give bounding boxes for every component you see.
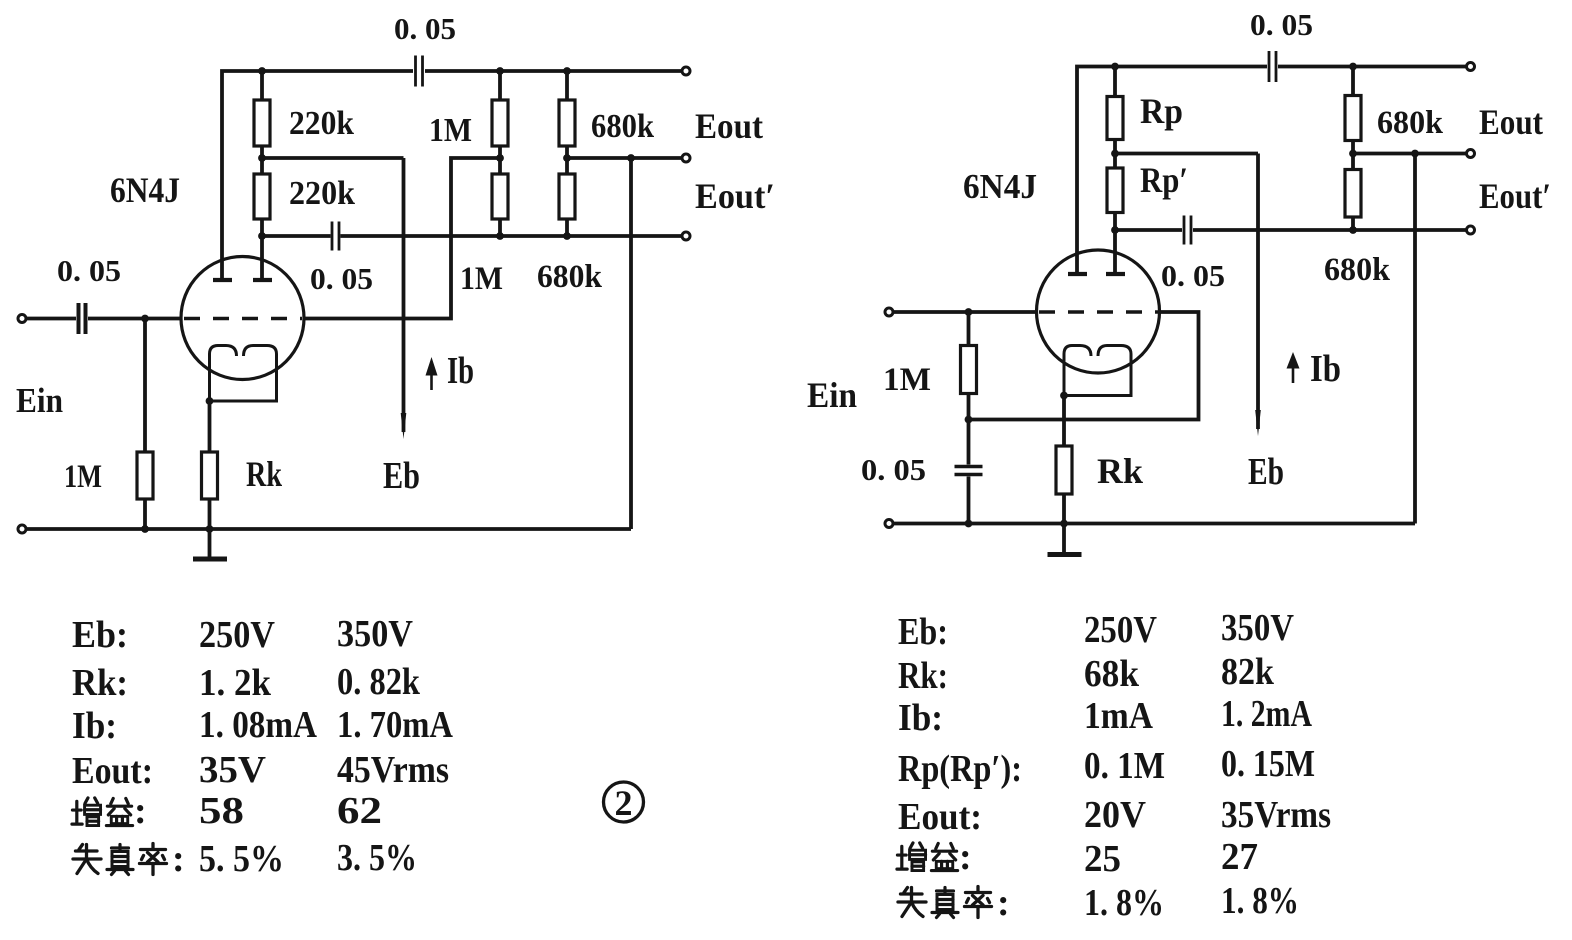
label table-left Eb row xyxy=(72,613,413,656)
svg-text:62: 62 xyxy=(337,790,382,832)
node: R4 bottom junction xyxy=(496,232,504,240)
capacitor C2 0.05 (Eout&#39; coupling) xyxy=(332,222,339,251)
label table-right Rk row xyxy=(898,651,1275,697)
svg-text:680k: 680k xyxy=(1377,105,1444,141)
node: Rp&#39; bottom junction xyxy=(1111,226,1119,234)
svg-text:250V: 250V xyxy=(199,614,275,656)
label tube V1 6N4J xyxy=(110,170,180,210)
node: left top rail junction at 220k xyxy=(258,67,266,75)
label table-left Rk row xyxy=(72,661,421,704)
wire: feedback loop second grid xyxy=(969,312,1199,420)
svg-text:45Vrms: 45Vrms xyxy=(337,749,449,791)
wire: Eout output wire (left) xyxy=(567,156,682,160)
svg-text:0. 1M: 0. 1M xyxy=(1084,745,1165,787)
svg-text:Ein: Ein xyxy=(807,375,857,415)
label R4 value 1M xyxy=(460,261,503,297)
wire: Eout&#39; wire right of C2 xyxy=(341,234,682,238)
label table-right Rp row xyxy=(898,743,1315,790)
node: grid leak bottom junction xyxy=(141,525,149,533)
wire: Eout&#39; wire left of C5 xyxy=(1115,228,1182,232)
label Ein (left) xyxy=(16,381,63,420)
label tube V2 6N4J xyxy=(963,167,1037,206)
svg-text:0. 05: 0. 05 xyxy=(394,11,456,46)
resistor R14 Rk (right cathode) xyxy=(1056,446,1072,494)
svg-text:Eout′: Eout′ xyxy=(695,176,775,216)
wire: Eb supply line (right) xyxy=(1256,154,1260,430)
svg-text:Eout: Eout xyxy=(695,106,763,146)
label R3 value 1M xyxy=(429,112,472,149)
label table-left distortion row (失真率) xyxy=(73,837,417,880)
node: right Eout wire junction to return drop xyxy=(1411,150,1419,158)
label Eout (left) xyxy=(695,106,763,146)
svg-text:1M: 1M xyxy=(429,112,472,149)
label Eout&#39; (left) xyxy=(695,176,775,216)
svg-text:250V: 250V xyxy=(1084,609,1157,651)
capacitor C1 0.05 (left top coupling) xyxy=(416,56,423,87)
svg-text:0. 15M: 0. 15M xyxy=(1221,743,1315,785)
label table-right distortion row (失真率) xyxy=(898,880,1299,924)
svg-text:1. 08mA: 1. 08mA xyxy=(199,704,317,746)
svg-text:2: 2 xyxy=(615,783,633,823)
cathode of V1 (heater cup) xyxy=(210,346,277,402)
terminal Eout (left) xyxy=(682,154,690,162)
svg-text:Rk: Rk xyxy=(1097,451,1143,491)
svg-text:Eout: Eout xyxy=(1479,102,1543,142)
label C1 value 0. 05 xyxy=(394,11,456,46)
wire: Eout&#39; wire left of C2 xyxy=(262,234,331,238)
svg-text:20V: 20V xyxy=(1084,794,1147,836)
label R8 Rk xyxy=(246,454,282,494)
svg-text:Ib: Ib xyxy=(1310,348,1341,390)
label R1 value 220k xyxy=(289,105,354,142)
svg-text:0. 05: 0. 05 xyxy=(57,253,121,288)
terminal: input Ein (right) xyxy=(885,308,893,316)
wire: 220k chain leads xyxy=(260,71,264,236)
label table-right Eout row xyxy=(898,794,1331,838)
wire: bottom return rail (left) xyxy=(27,527,632,531)
wire: right 1M leads xyxy=(967,312,971,420)
node: cathode junction (right) xyxy=(1060,392,1068,400)
svg-text:1. 2k: 1. 2k xyxy=(199,662,272,704)
svg-text:68k: 68k xyxy=(1084,653,1140,695)
wire: right input to grid xyxy=(894,310,1037,314)
svg-text:220k: 220k xyxy=(289,105,354,142)
svg-text:1. 70mA: 1. 70mA xyxy=(337,704,453,746)
resistor R10 Rp&#39; xyxy=(1107,168,1123,213)
svg-text:5. 5%: 5. 5% xyxy=(199,838,284,880)
figure number circled 2 xyxy=(604,782,644,823)
resistor R6 680k (lower) xyxy=(559,174,575,219)
node: left top rail junction at 680k xyxy=(563,67,571,75)
label R12 value 680k xyxy=(1324,252,1391,288)
arrowhead: Eb line right (down) xyxy=(1255,410,1261,436)
svg-text:Eb: Eb xyxy=(383,455,420,497)
svg-text:Rp: Rp xyxy=(1140,91,1183,131)
svg-text:0. 05: 0. 05 xyxy=(1161,258,1225,293)
node: R11-R12 junction xyxy=(1349,150,1357,158)
wire: right circuit B+ top rail with anode riser xyxy=(1077,67,1466,273)
wire: bottom return rail (right) xyxy=(894,522,1416,526)
label R7 value 1M xyxy=(64,459,102,495)
wire: Rp chain leads xyxy=(1113,67,1117,231)
label Eb (left) xyxy=(383,455,420,497)
ground (right) xyxy=(1048,524,1082,555)
terminal Eout&#39; (right) xyxy=(1467,226,1475,234)
resistor R11 680k (upper right) xyxy=(1345,96,1361,141)
capacitor C5 0.05 (right Eout&#39; coupling) xyxy=(1184,216,1191,245)
anode 2 lead and plate of V1 xyxy=(253,236,272,280)
label Ein (right) xyxy=(807,375,857,415)
svg-text:1. 2mA: 1. 2mA xyxy=(1221,693,1312,735)
wire: Rp-Rp&#39; junction to Eb line (right) xyxy=(1115,152,1258,156)
label R5 value 680k xyxy=(591,108,654,145)
label table-right Eb row xyxy=(898,607,1294,653)
label table-left Ib row xyxy=(72,704,453,747)
tube V2 6N4J envelope (right) xyxy=(1037,250,1160,373)
resistor R1 220k (upper) xyxy=(254,100,270,146)
arrow: Ib current (left, up) xyxy=(426,357,438,390)
svg-text:680k: 680k xyxy=(1324,252,1391,288)
svg-text:Rp(Rp′):: Rp(Rp′): xyxy=(898,748,1022,790)
tube V1 6N4J envelope (left) xyxy=(181,257,304,380)
svg-text:1M: 1M xyxy=(460,261,503,297)
node: 1M bottom junction (right) xyxy=(965,416,973,424)
svg-text:Rk:: Rk: xyxy=(898,655,948,697)
terminal: bottom rail (right) xyxy=(885,520,893,528)
svg-text:0. 05: 0. 05 xyxy=(310,261,373,296)
wire: R1-R2 junction to Eb supply line xyxy=(262,156,404,160)
wire: right 680k chain leads xyxy=(1351,67,1355,231)
svg-text:25: 25 xyxy=(1084,838,1121,880)
svg-text:58: 58 xyxy=(199,790,244,832)
node: right Rk bottom junction xyxy=(1060,520,1068,528)
label C6 value 0. 05 xyxy=(861,452,926,487)
svg-text:Eout:: Eout: xyxy=(898,796,982,838)
svg-text:1M: 1M xyxy=(64,459,102,495)
label Ib (left) xyxy=(447,350,474,392)
wire: C6 to bottom rail xyxy=(967,477,971,524)
svg-text:35V: 35V xyxy=(199,749,267,791)
svg-text:Rk: Rk xyxy=(246,454,282,494)
terminal: right B+ rail output xyxy=(1467,63,1475,71)
svg-text::: : xyxy=(959,836,972,878)
svg-text:27: 27 xyxy=(1221,836,1258,878)
wire: right cathode to Rk to bottom rail xyxy=(1062,396,1066,524)
label Eout (right) xyxy=(1479,102,1543,142)
ground (left) xyxy=(193,529,227,559)
svg-text:Ein: Ein xyxy=(16,381,63,420)
node: Rp-Rp&#39; junction xyxy=(1111,150,1119,158)
label table-left Eout row xyxy=(72,749,449,792)
svg-text:6N4J: 6N4J xyxy=(110,170,180,210)
svg-text::: : xyxy=(172,838,185,880)
wire: 680k chain leads xyxy=(565,71,569,236)
terminal: bottom rail (left) xyxy=(18,525,26,533)
label C3 value 0. 05 xyxy=(57,253,121,288)
svg-text:1. 8%: 1. 8% xyxy=(1221,880,1299,922)
wire: cathode to Rk to ground xyxy=(208,401,212,529)
label R14 Rk xyxy=(1097,451,1143,491)
svg-text:Ib: Ib xyxy=(447,350,474,392)
label C5 value 0. 05 xyxy=(1161,258,1225,293)
node: right input junction xyxy=(965,308,973,316)
resistor R5 680k (upper) xyxy=(559,100,575,146)
capacitor C4 0.05 (right top coupling) xyxy=(1269,51,1276,82)
node: Rk bottom junction xyxy=(206,525,214,533)
node: R3-R4 junction xyxy=(496,154,504,162)
node: R5-R6 junction xyxy=(563,154,571,162)
svg-text::: : xyxy=(134,790,147,832)
resistor R3 1M (upper) xyxy=(492,100,508,146)
wire: grid leak leads xyxy=(143,319,147,530)
node: left top rail junction at 1M xyxy=(496,67,504,75)
grid (dashed) of V2 xyxy=(1039,310,1158,313)
svg-text:680k: 680k xyxy=(537,259,603,295)
svg-text:350V: 350V xyxy=(1221,607,1294,649)
svg-text:1. 8%: 1. 8% xyxy=(1084,882,1164,924)
label R13 value 1M xyxy=(883,362,931,398)
svg-text:680k: 680k xyxy=(591,108,654,145)
svg-text:Eout′: Eout′ xyxy=(1479,176,1551,216)
svg-text:Eb:: Eb: xyxy=(898,611,948,653)
capacitor C3 0.05 (input coupling) xyxy=(79,303,86,334)
resistor R7 1M (grid leak) xyxy=(137,452,153,499)
label table-right Ib row xyxy=(898,693,1312,739)
svg-text:1mA: 1mA xyxy=(1084,695,1153,737)
resistor R13 1M (right grid) xyxy=(961,346,977,394)
wire: Eout&#39; wire right of C5 xyxy=(1193,228,1466,232)
svg-text:Eout:: Eout: xyxy=(72,750,153,792)
label table-left gain row (增益) xyxy=(72,790,382,832)
svg-text:Eb: Eb xyxy=(1248,451,1284,493)
label Eb (right) xyxy=(1248,451,1284,493)
label Eout&#39; (right) xyxy=(1479,176,1551,216)
svg-text:0. 05: 0. 05 xyxy=(861,452,926,487)
wire: 1M junction to C6 xyxy=(967,420,971,465)
svg-text:6N4J: 6N4J xyxy=(963,167,1037,206)
svg-text:Ib:: Ib: xyxy=(898,697,943,739)
svg-text:Rk:: Rk: xyxy=(72,662,128,704)
wire: C3 to grid xyxy=(88,317,181,321)
label C2 value 0. 05 xyxy=(310,261,373,296)
node: right top rail junction at 680k xyxy=(1349,63,1357,71)
resistor R9 Rp xyxy=(1107,97,1123,140)
anode 2 lead and plate of V2 xyxy=(1106,230,1125,274)
label Ib (right) xyxy=(1310,348,1341,390)
svg-text:0. 05: 0. 05 xyxy=(1250,7,1313,42)
svg-text::: : xyxy=(997,882,1010,924)
svg-text:1M: 1M xyxy=(883,362,931,398)
node: C6 bottom junction xyxy=(965,520,973,528)
node: R6 bottom junction xyxy=(563,232,571,240)
arrow: Ib current (right, up) xyxy=(1287,352,1300,383)
arrowhead: Eb line (down) xyxy=(401,413,407,439)
terminal Eout (right) xyxy=(1467,150,1475,158)
capacitor C6 0.05 (cathode bypass, vertical) xyxy=(955,467,983,475)
node: right top rail junction at Rp xyxy=(1111,63,1119,71)
wire: left circuit B+ top rail with anode riser xyxy=(222,71,682,278)
resistor R2 220k (lower) xyxy=(254,174,270,219)
wire: return drop (right) xyxy=(1413,154,1417,524)
node: input grid junction xyxy=(141,315,149,323)
svg-text:350V: 350V xyxy=(337,613,413,655)
label R6 value 680k xyxy=(537,259,603,295)
cathode of V2 (heater cup) xyxy=(1064,346,1131,396)
svg-text:Rp′: Rp′ xyxy=(1140,160,1188,200)
svg-text:Ib:: Ib: xyxy=(72,705,117,747)
label R2 value 220k xyxy=(289,175,355,212)
wire: return drop from Eout wire to bottom rail xyxy=(629,158,633,529)
anode plate 1 of V2 xyxy=(1068,272,1087,276)
wire: second grid to divider junction xyxy=(304,158,500,319)
node: Eout wire junction to return drop xyxy=(627,154,635,162)
node: R2 bottom junction xyxy=(258,232,266,240)
svg-text:0. 82k: 0. 82k xyxy=(337,661,421,703)
label R9 Rp xyxy=(1140,91,1183,131)
terminal: input Ein (left) xyxy=(18,315,26,323)
label R11 value 680k xyxy=(1377,105,1444,141)
resistor R8 Rk (cathode) xyxy=(202,452,218,499)
svg-text:220k: 220k xyxy=(289,175,355,212)
label table-right gain row (增益) xyxy=(897,836,1258,880)
wire: Eb supply line (left) xyxy=(402,158,406,432)
node: R1-R2 junction xyxy=(258,154,266,162)
wire: Eout output wire (right) xyxy=(1353,152,1466,156)
svg-text:35Vrms: 35Vrms xyxy=(1221,794,1331,836)
terminal: left B+ rail output xyxy=(682,67,690,75)
resistor R4 1M (lower) xyxy=(492,174,508,219)
wire: input to C3 xyxy=(27,317,77,321)
anode plate 1 of V1 xyxy=(213,278,232,282)
svg-text:Eb:: Eb: xyxy=(72,614,128,656)
resistor R12 680k (lower right) xyxy=(1345,170,1361,218)
svg-text:3. 5%: 3. 5% xyxy=(337,837,417,879)
label R10 Rp&#39; xyxy=(1140,160,1188,200)
node: R12 bottom junction xyxy=(1349,226,1357,234)
wire: 1M chain leads xyxy=(498,71,502,236)
terminal Eout&#39; (left) xyxy=(682,232,690,240)
label C4 value 0. 05 xyxy=(1250,7,1313,42)
node: cathode junction xyxy=(206,397,214,405)
grid (dashed) of V1 xyxy=(184,317,302,320)
svg-text:82k: 82k xyxy=(1221,651,1275,693)
